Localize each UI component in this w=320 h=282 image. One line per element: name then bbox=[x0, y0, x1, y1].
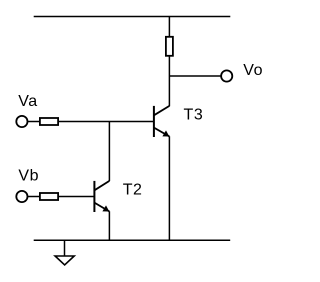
wire T3 emitter to bottom rail bbox=[168, 136, 170, 240]
terminal Vo bbox=[221, 70, 232, 81]
wire Va terminal to input resistor bbox=[28, 121, 41, 123]
svg-text:Vb: Vb bbox=[18, 168, 39, 185]
svg-text:Va: Va bbox=[18, 93, 38, 110]
wire Va resistor to T3 base (through node) bbox=[58, 121, 154, 123]
transistor T3 bbox=[154, 106, 170, 137]
wire Vb terminal to input resistor bbox=[28, 196, 41, 198]
wire Vb resistor to T2 base bbox=[58, 196, 94, 198]
svg-text:Vo: Vo bbox=[243, 62, 263, 79]
wire resistor to T3 collector bbox=[168, 56, 170, 106]
terminal Va bbox=[16, 116, 27, 127]
top supply rail wire bbox=[34, 16, 231, 18]
resistor Rb (Vb input) bbox=[40, 193, 58, 200]
resistor R (collector load) bbox=[166, 37, 173, 56]
svg-text:T2: T2 bbox=[123, 182, 143, 199]
terminal Vb bbox=[16, 191, 27, 202]
wire output node to Vo terminal bbox=[169, 75, 220, 77]
transistor T2 bbox=[94, 181, 109, 212]
wire node to T2 collector bbox=[108, 122, 110, 182]
bottom rail wire bbox=[34, 239, 231, 241]
wire T2 emitter to bottom rail bbox=[108, 211, 110, 240]
resistor Ra (Va input) bbox=[40, 118, 58, 125]
wire rail to resistor R bbox=[168, 17, 170, 38]
ground bbox=[55, 240, 74, 265]
svg-text:T3: T3 bbox=[184, 107, 204, 124]
